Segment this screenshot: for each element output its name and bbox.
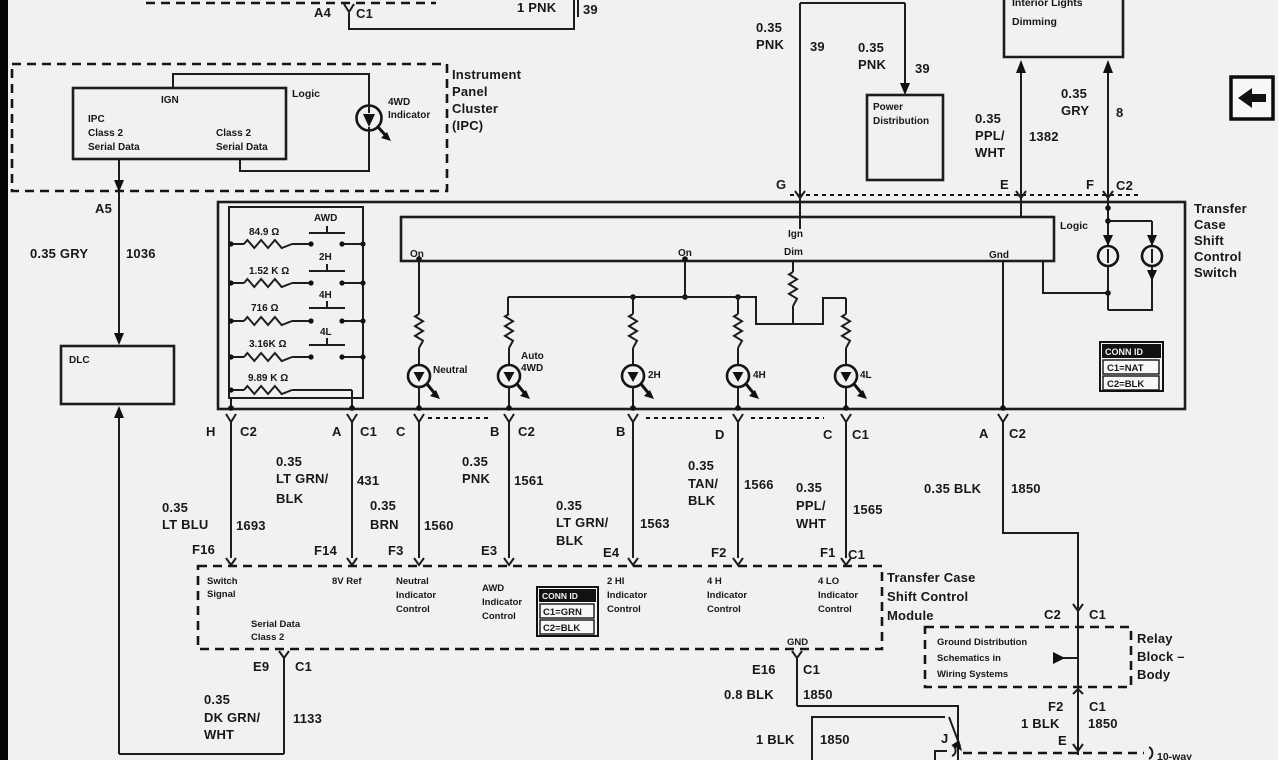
svg-text:C2: C2 bbox=[1116, 178, 1133, 193]
module pin: 4 H indicator control bbox=[707, 576, 747, 615]
svg-text:Gnd: Gnd bbox=[989, 250, 1009, 261]
contact 4H bbox=[309, 290, 345, 308]
svg-text:C2: C2 bbox=[518, 424, 535, 439]
svg-text:9.89 K Ω: 9.89 K Ω bbox=[248, 373, 288, 384]
resistor 3.16K ohm bbox=[228, 339, 365, 361]
wire A5: 0.35 GRY 1036 bbox=[30, 159, 156, 345]
svg-text:431: 431 bbox=[357, 473, 379, 488]
transfer case shift control module dashed box bbox=[198, 566, 882, 649]
dim resistor bbox=[789, 261, 797, 324]
wire E: 0.35 PPL/WHT 1382 bbox=[975, 60, 1059, 217]
svg-text:BRN: BRN bbox=[370, 517, 399, 532]
instrument panel cluster (IPC) dashed box bbox=[12, 64, 447, 191]
resistor 1.52 K ohm bbox=[228, 266, 365, 287]
svg-text:2 HI: 2 HI bbox=[607, 576, 624, 587]
svg-text:C1: C1 bbox=[360, 424, 377, 439]
wire B-E4: 0.35 LT GRN/BLK 1563 bbox=[556, 422, 670, 560]
svg-text:PPL/: PPL/ bbox=[796, 498, 826, 513]
wire F: 0.35 GRY 8 bbox=[1061, 60, 1133, 221]
svg-text:0.35: 0.35 bbox=[556, 498, 582, 513]
svg-text:C1: C1 bbox=[803, 662, 820, 677]
svg-text:10-way: 10-way bbox=[1157, 751, 1192, 760]
svg-text:Class 2: Class 2 bbox=[88, 128, 123, 139]
svg-text:C1: C1 bbox=[356, 6, 373, 21]
logic lamp feed wires bbox=[1103, 202, 1157, 246]
svg-text:1 BLK: 1 BLK bbox=[756, 732, 795, 747]
svg-text:BLK: BLK bbox=[556, 533, 584, 548]
connector C2 dashed line (switch top) bbox=[790, 191, 1140, 198]
svg-text:Dimming: Dimming bbox=[1012, 16, 1057, 28]
svg-text:8: 8 bbox=[1116, 105, 1123, 120]
svg-text:Signal: Signal bbox=[207, 589, 236, 600]
svg-text:C2: C2 bbox=[240, 424, 257, 439]
svg-text:C1=GRN: C1=GRN bbox=[543, 607, 582, 618]
svg-text:Control: Control bbox=[1194, 249, 1242, 264]
DLC box bbox=[61, 346, 174, 404]
terminal E16 C1 bbox=[752, 651, 820, 677]
terminal B bbox=[616, 414, 638, 439]
svg-text:39: 39 bbox=[583, 2, 598, 17]
svg-text:LT GRN/: LT GRN/ bbox=[556, 515, 609, 530]
interior lights dimming box bbox=[1004, 0, 1123, 57]
terminal C C1 bbox=[823, 414, 869, 442]
svg-text:4 LO: 4 LO bbox=[818, 576, 839, 587]
svg-text:LT BLU: LT BLU bbox=[162, 517, 208, 532]
svg-text:1560: 1560 bbox=[424, 518, 454, 533]
logic lamp 1 bbox=[1098, 246, 1118, 266]
svg-text:Indicator: Indicator bbox=[482, 597, 522, 608]
svg-text:Dim: Dim bbox=[784, 247, 803, 258]
svg-text:C1: C1 bbox=[1089, 699, 1106, 714]
svg-text:IPC: IPC bbox=[88, 114, 105, 125]
dashed box edge (off-page component above) bbox=[146, 2, 436, 5]
back arrow button bbox=[1231, 77, 1273, 119]
svg-text:(IPC): (IPC) bbox=[452, 118, 483, 133]
conn id box (module): C1=GRN C2=BLK bbox=[537, 587, 598, 636]
svg-text:1 BLK: 1 BLK bbox=[1021, 716, 1060, 731]
module pin: 2 HI indicator control bbox=[607, 576, 647, 615]
svg-text:AWD: AWD bbox=[482, 583, 504, 594]
svg-text:1693: 1693 bbox=[236, 518, 266, 533]
svg-text:Module: Module bbox=[887, 608, 934, 623]
svg-text:Control: Control bbox=[707, 604, 741, 615]
wire 1 PNK 39 bbox=[349, 0, 598, 29]
conn id box (switch): C1=NAT C2=BLK bbox=[1100, 342, 1163, 391]
svg-text:4WD: 4WD bbox=[521, 363, 543, 374]
svg-text:B: B bbox=[616, 424, 626, 439]
svg-text:Block –: Block – bbox=[1137, 649, 1185, 664]
4WD indicator lamp bbox=[357, 97, 431, 141]
ground reference arrow bbox=[1053, 652, 1077, 664]
svg-text:Power: Power bbox=[873, 102, 903, 113]
ground distribution dashed box bbox=[925, 627, 1131, 687]
svg-text:1382: 1382 bbox=[1029, 129, 1059, 144]
svg-text:F: F bbox=[1086, 177, 1094, 192]
svg-text:1.52 K Ω: 1.52 K Ω bbox=[249, 266, 289, 277]
svg-text:BLK: BLK bbox=[688, 493, 716, 508]
terminal C2 C1 (relay block top) bbox=[1044, 604, 1106, 622]
svg-text:Relay: Relay bbox=[1137, 631, 1173, 646]
terminal A4 C1 bbox=[314, 4, 373, 21]
switch contact bar bbox=[401, 217, 1054, 261]
terminal F2 C1: 1 BLK 1850 bbox=[1021, 689, 1118, 751]
4H lamp branch bbox=[727, 294, 766, 411]
transfer case shift control switch box bbox=[218, 202, 1185, 409]
svg-text:Wiring Systems: Wiring Systems bbox=[937, 669, 1008, 680]
svg-text:Body: Body bbox=[1137, 667, 1171, 682]
svg-text:E3: E3 bbox=[481, 543, 497, 558]
module pin: 4 LO indicator control bbox=[818, 576, 858, 615]
svg-text:Neutral: Neutral bbox=[396, 576, 429, 587]
svg-text:Logic: Logic bbox=[1060, 220, 1088, 232]
svg-text:0.35: 0.35 bbox=[796, 480, 822, 495]
svg-text:0.8 BLK: 0.8 BLK bbox=[724, 687, 774, 702]
resistor ladder sub-box bbox=[229, 207, 363, 398]
switch bottom connector dashed segments bbox=[428, 417, 824, 419]
svg-text:Serial Data: Serial Data bbox=[88, 142, 140, 153]
power distribution box bbox=[867, 95, 943, 180]
wire G: 0.35 PNK 39 bbox=[756, 3, 825, 229]
svg-text:Control: Control bbox=[818, 604, 852, 615]
svg-text:Serial Data: Serial Data bbox=[216, 142, 268, 153]
svg-text:AWD: AWD bbox=[314, 213, 337, 224]
wire: On feed rail bbox=[508, 256, 846, 324]
svg-text:Indicator: Indicator bbox=[607, 590, 647, 601]
svg-text:C1: C1 bbox=[852, 427, 869, 442]
svg-text:J: J bbox=[941, 731, 948, 746]
wire: switch wiper to terminal A bbox=[349, 390, 355, 411]
svg-text:D: D bbox=[715, 427, 725, 442]
wire C-F1: 0.35 PPL/WHT 1565 bbox=[796, 422, 883, 562]
svg-text:4L: 4L bbox=[860, 370, 872, 381]
svg-text:A4: A4 bbox=[314, 5, 332, 20]
svg-text:39: 39 bbox=[915, 61, 930, 76]
terminal D bbox=[715, 414, 743, 442]
terminal E9 C1 bbox=[253, 651, 312, 674]
svg-text:E: E bbox=[1058, 733, 1067, 748]
svg-text:Logic: Logic bbox=[292, 88, 320, 100]
terminal A C2 bbox=[979, 414, 1026, 441]
svg-text:Interior Lights: Interior Lights bbox=[1012, 0, 1083, 9]
svg-text:A: A bbox=[979, 426, 989, 441]
svg-text:C2: C2 bbox=[1009, 426, 1026, 441]
module pin: serial data class 2 bbox=[251, 619, 301, 643]
svg-text:F3: F3 bbox=[388, 543, 404, 558]
svg-text:C1: C1 bbox=[1089, 607, 1106, 622]
svg-text:IGN: IGN bbox=[161, 95, 179, 106]
svg-text:A5: A5 bbox=[95, 201, 112, 216]
svg-text:BLK: BLK bbox=[276, 491, 304, 506]
module pin: AWD indicator control bbox=[482, 583, 522, 622]
svg-text:Indicator: Indicator bbox=[707, 590, 747, 601]
svg-text:C1=NAT: C1=NAT bbox=[1107, 363, 1144, 374]
svg-text:0.35: 0.35 bbox=[276, 454, 302, 469]
svg-text:WHT: WHT bbox=[796, 516, 826, 531]
splice J label: 1 BLK 1850 bbox=[756, 717, 962, 760]
svg-text:Cluster: Cluster bbox=[452, 101, 498, 116]
svg-text:F2: F2 bbox=[1048, 699, 1064, 714]
resistor 9.89 K ohm bbox=[228, 373, 352, 394]
wire E16 ground: 0.8 BLK 1850 bbox=[724, 658, 958, 760]
logic lamp 2 bbox=[1142, 246, 1162, 266]
svg-text:E9: E9 bbox=[253, 659, 269, 674]
svg-text:GRY: GRY bbox=[1061, 103, 1089, 118]
svg-text:1565: 1565 bbox=[853, 502, 883, 517]
svg-text:C2=BLK: C2=BLK bbox=[543, 623, 580, 634]
svg-text:DLC: DLC bbox=[69, 355, 90, 366]
svg-text:C2=BLK: C2=BLK bbox=[1107, 379, 1144, 390]
svg-text:PNK: PNK bbox=[462, 471, 490, 486]
wire C-F3: 0.35 BRN 1560 bbox=[370, 422, 454, 558]
svg-text:0.35: 0.35 bbox=[858, 40, 884, 55]
wire Gnd to terminal A C2 bbox=[1000, 261, 1006, 411]
svg-text:C1: C1 bbox=[295, 659, 312, 674]
svg-text:E4: E4 bbox=[603, 545, 620, 560]
svg-text:1850: 1850 bbox=[803, 687, 833, 702]
svg-text:PNK: PNK bbox=[858, 57, 886, 72]
terminal C bbox=[396, 414, 424, 439]
svg-text:0.35: 0.35 bbox=[975, 111, 1001, 126]
svg-text:1133: 1133 bbox=[293, 711, 322, 726]
2H lamp branch bbox=[622, 294, 661, 411]
contact 4L bbox=[309, 327, 345, 345]
contact AWD bbox=[309, 213, 345, 233]
svg-text:F1: F1 bbox=[820, 545, 836, 560]
svg-text:Neutral: Neutral bbox=[433, 365, 468, 376]
module top terminal brackets bbox=[226, 558, 851, 565]
svg-text:1563: 1563 bbox=[640, 516, 670, 531]
module pin: neutral indicator control bbox=[396, 576, 436, 615]
wire: relay block to 10-way connector bbox=[1077, 601, 1079, 755]
svg-text:GND: GND bbox=[787, 637, 808, 648]
4L lamp branch bbox=[835, 298, 872, 411]
svg-text:4 H: 4 H bbox=[707, 576, 722, 587]
resistor 716 ohm bbox=[228, 303, 365, 325]
terminal H C2 bbox=[206, 414, 257, 439]
svg-text:Serial Data: Serial Data bbox=[251, 619, 301, 630]
svg-text:4L: 4L bbox=[320, 327, 332, 338]
module pin: switch signal bbox=[207, 576, 238, 600]
wire A-F14: 0.35 LT GRN/BLK 431 bbox=[276, 422, 379, 558]
svg-text:2H: 2H bbox=[319, 252, 332, 263]
wire: indicator return to class 2 serial data bbox=[240, 127, 369, 171]
terminal A C1 bbox=[332, 414, 377, 439]
svg-text:Class 2: Class 2 bbox=[251, 632, 284, 643]
svg-text:0.35 GRY: 0.35 GRY bbox=[30, 246, 88, 261]
svg-text:1850: 1850 bbox=[1011, 481, 1041, 496]
svg-text:A: A bbox=[332, 424, 342, 439]
wire to power distribution: 0.35 PNK 39 bbox=[858, 3, 930, 95]
svg-text:1850: 1850 bbox=[820, 732, 850, 747]
svg-text:0.35: 0.35 bbox=[688, 458, 714, 473]
svg-text:C2: C2 bbox=[1044, 607, 1061, 622]
svg-text:WHT: WHT bbox=[975, 145, 1005, 160]
svg-text:Ground Distribution: Ground Distribution bbox=[937, 637, 1027, 648]
relay block body label bbox=[1137, 631, 1185, 682]
svg-text:Indicator: Indicator bbox=[396, 590, 436, 601]
svg-text:1566: 1566 bbox=[744, 477, 774, 492]
wire: IGN to 4WD indicator bbox=[173, 74, 369, 105]
wire H-F16: 0.35 LT BLU 1693 bbox=[162, 422, 266, 558]
svg-text:Instrument: Instrument bbox=[452, 67, 522, 82]
svg-text:LT GRN/: LT GRN/ bbox=[276, 471, 329, 486]
svg-text:WHT: WHT bbox=[204, 727, 234, 742]
svg-text:G: G bbox=[776, 177, 786, 192]
neutral lamp branch bbox=[408, 256, 468, 411]
wire D-F2: 0.35 TAN/BLK 1566 bbox=[688, 422, 774, 560]
svg-text:1561: 1561 bbox=[514, 473, 544, 488]
svg-text:0.35: 0.35 bbox=[756, 20, 782, 35]
svg-text:Switch: Switch bbox=[207, 576, 238, 587]
wire A-relay block: 0.35 BLK 1850 bbox=[924, 422, 1078, 601]
svg-text:1036: 1036 bbox=[126, 246, 156, 261]
svg-text:F2: F2 bbox=[711, 545, 727, 560]
auto 4wd lamp branch bbox=[498, 297, 544, 411]
svg-text:0.35: 0.35 bbox=[204, 692, 230, 707]
svg-text:Indicator: Indicator bbox=[818, 590, 858, 601]
svg-text:Ign: Ign bbox=[788, 229, 803, 240]
svg-text:3.16K Ω: 3.16K Ω bbox=[249, 339, 286, 350]
svg-text:39: 39 bbox=[810, 39, 825, 54]
IPC logic block bbox=[73, 88, 286, 159]
wire: ladder common to terminal H bbox=[228, 398, 234, 411]
svg-text:E16: E16 bbox=[752, 662, 776, 677]
svg-text:F16: F16 bbox=[192, 542, 215, 557]
svg-text:84.9 Ω: 84.9 Ω bbox=[249, 227, 279, 238]
switch name label bbox=[1194, 201, 1247, 280]
svg-text:Shift Control: Shift Control bbox=[887, 589, 968, 604]
svg-text:E: E bbox=[1000, 177, 1009, 192]
svg-text:Transfer Case: Transfer Case bbox=[887, 570, 976, 585]
contact 2H bbox=[309, 252, 345, 271]
svg-text:Switch: Switch bbox=[1194, 265, 1237, 280]
svg-text:716 Ω: 716 Ω bbox=[251, 303, 278, 314]
IPC name label bbox=[452, 67, 522, 133]
wire E9: 0.35 DK GRN/WHT 1133 bbox=[204, 658, 322, 754]
svg-text:H: H bbox=[206, 424, 216, 439]
wire: bar to logic lamps bbox=[1043, 261, 1111, 296]
wire: circuit 39 top bus bbox=[800, 2, 905, 4]
svg-text:1850: 1850 bbox=[1088, 716, 1118, 731]
svg-text:4H: 4H bbox=[753, 370, 766, 381]
svg-text:0.35: 0.35 bbox=[370, 498, 396, 513]
svg-text:DK GRN/: DK GRN/ bbox=[204, 710, 260, 725]
svg-text:8V Ref: 8V Ref bbox=[332, 576, 362, 587]
svg-text:Schematics in: Schematics in bbox=[937, 653, 1001, 664]
svg-text:TAN/: TAN/ bbox=[688, 476, 718, 491]
svg-text:PPL/: PPL/ bbox=[975, 128, 1005, 143]
wire: DLC to serial data junction bbox=[114, 406, 284, 754]
svg-text:Control: Control bbox=[482, 611, 516, 622]
svg-text:0.35 BLK: 0.35 BLK bbox=[924, 481, 982, 496]
svg-text:Class 2: Class 2 bbox=[216, 128, 251, 139]
svg-text:Auto: Auto bbox=[521, 351, 544, 362]
svg-text:Panel: Panel bbox=[452, 84, 488, 99]
resistor 84.9 ohm bbox=[228, 227, 365, 248]
svg-text:Control: Control bbox=[607, 604, 641, 615]
svg-text:B: B bbox=[490, 424, 500, 439]
10-way connector dashed box (bottom edge) bbox=[935, 745, 1192, 760]
svg-text:PNK: PNK bbox=[756, 37, 784, 52]
svg-text:Indicator: Indicator bbox=[388, 110, 430, 121]
module name label bbox=[887, 570, 976, 623]
svg-text:F14: F14 bbox=[314, 543, 338, 558]
svg-text:Case: Case bbox=[1194, 217, 1226, 232]
terminal B C2 bbox=[490, 414, 535, 439]
svg-text:2H: 2H bbox=[648, 370, 661, 381]
wire B-E3: 0.35 PNK 1561 bbox=[462, 422, 544, 558]
svg-text:0.35: 0.35 bbox=[462, 454, 488, 469]
svg-text:C: C bbox=[396, 424, 406, 439]
svg-text:4WD: 4WD bbox=[388, 97, 410, 108]
svg-text:1 PNK: 1 PNK bbox=[517, 0, 557, 15]
svg-text:0.35: 0.35 bbox=[1061, 86, 1087, 101]
svg-text:0.35: 0.35 bbox=[162, 500, 188, 515]
svg-text:Transfer: Transfer bbox=[1194, 201, 1247, 216]
svg-text:Control: Control bbox=[396, 604, 430, 615]
logic lamp return loop bbox=[1108, 266, 1157, 310]
svg-text:CONN ID: CONN ID bbox=[1105, 347, 1144, 357]
svg-text:CONN ID: CONN ID bbox=[542, 591, 578, 601]
svg-text:C: C bbox=[823, 427, 833, 442]
svg-text:4H: 4H bbox=[319, 290, 332, 301]
svg-text:Shift: Shift bbox=[1194, 233, 1224, 248]
svg-text:Distribution: Distribution bbox=[873, 116, 929, 127]
